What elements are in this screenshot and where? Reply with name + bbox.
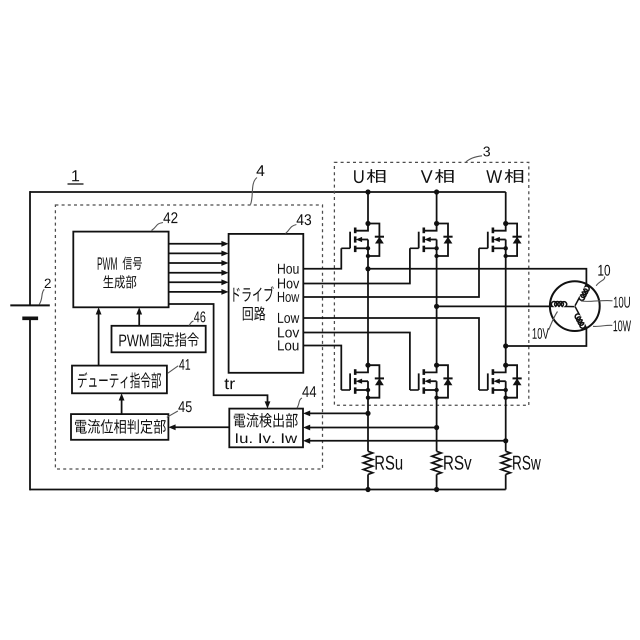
wire: PWM signal arrow 3 from 42 to 43 — [169, 262, 223, 264]
motor winding 10W — [571, 306, 587, 330]
pin label Hov — [278, 278, 299, 288]
label 42 — [163, 212, 177, 223]
label 3 — [483, 147, 490, 157]
wire: U top bus to high-side drain — [367, 192, 369, 224]
label 4 — [257, 165, 265, 176]
label RSw — [513, 456, 541, 470]
leader for label 46 — [189, 321, 194, 326]
leader for label 10V — [549, 312, 558, 331]
wire: V high-side source to phase node — [436, 256, 438, 306]
leader for label 44 — [297, 398, 302, 408]
wire: shunt to bottom bus — [367, 474, 369, 489]
leader for label 10W — [593, 325, 612, 326]
pin label Hou — [278, 264, 299, 274]
wire: W low-side source to sense node — [505, 398, 507, 441]
wire: W top bus to high-side drain — [505, 192, 507, 224]
leader for label 10 — [596, 277, 605, 286]
leader for label 3 — [466, 156, 482, 162]
dashed boundary box 4 (controller) — [55, 205, 322, 469]
wire: arrow 44 to 45 — [175, 426, 230, 428]
wire: Hov gate drive routing — [303, 248, 410, 283]
text 電流位相判定部 — [75, 419, 166, 434]
text 電流検出部 — [234, 413, 298, 428]
block 42: PWM signal generation box — [73, 232, 168, 308]
leader for label 41 — [168, 366, 178, 373]
pin label Lou — [278, 340, 298, 350]
text Iu, Iv, Iw — [236, 433, 297, 443]
wire: ground return rail (bottom bus) — [30, 489, 506, 491]
wire: arrow 46 to 42 — [138, 314, 140, 326]
wire: U sense node to shunt resistor — [367, 413, 369, 451]
text PWM信号 line1 — [98, 257, 117, 269]
underline of label 1 — [68, 183, 84, 185]
wire: W sense node to shunt resistor — [505, 441, 507, 452]
motor winding 10U — [575, 284, 591, 308]
wire: left supply branch lower — [29, 318, 31, 490]
transistor Q4 (U-phase low side) — [341, 363, 384, 400]
wire: PWM signal arrow 5 from 42 to 43 — [169, 281, 223, 283]
transistor Q2 (V-phase high side) — [410, 221, 453, 258]
transistor Q5 (V-phase low side) — [410, 363, 453, 400]
wire: V top bus to high-side drain — [436, 192, 438, 224]
label 45 — [178, 401, 191, 412]
text デューティ指令部 — [78, 372, 161, 388]
wire: shunt to bottom bus — [436, 474, 438, 489]
resistor RSw — [501, 451, 510, 474]
wire: U low-side source to sense node — [367, 398, 369, 414]
label 2 — [45, 279, 51, 288]
wire: Hou gate drive routing — [303, 248, 341, 268]
label V相 — [421, 170, 433, 183]
node U-phase top bus connection — [365, 189, 370, 194]
pin label Low — [278, 313, 299, 323]
wire: How gate drive routing — [303, 248, 479, 297]
label U相 — [354, 170, 363, 183]
leader for label 43 — [286, 225, 297, 234]
motor 10 (three-phase) — [550, 281, 600, 331]
label 46 — [194, 311, 205, 322]
wire: U phase to motor terminal — [368, 269, 586, 284]
wire: W phase to motor terminal — [506, 328, 587, 346]
label 43 — [297, 214, 312, 225]
label RSv — [444, 456, 471, 470]
node V-phase top bus connection — [434, 189, 439, 194]
label 44 — [302, 386, 316, 397]
resistor RSu — [363, 451, 372, 474]
leader for label 2 — [39, 289, 44, 304]
wire: V sense node to shunt resistor — [436, 428, 438, 452]
wire: tr signal from 42 to 44 — [169, 304, 268, 402]
node W current sense — [503, 438, 508, 443]
wire: V low-side source to sense node — [436, 398, 438, 428]
label 1 — [72, 170, 79, 181]
pin label Lov — [278, 327, 299, 337]
wire: arrow 41 to 42 — [98, 314, 100, 366]
wire: V phase to motor terminal — [437, 305, 550, 307]
transistor Q1 (U-phase high side) — [341, 221, 384, 258]
resistor RSv — [432, 451, 441, 474]
label 10 — [598, 265, 610, 276]
label 10W — [614, 320, 632, 331]
wire: PWM signal arrow 4 from 42 to 43 — [169, 272, 223, 274]
text 回路 — [243, 306, 266, 320]
wire: Low gate drive routing — [303, 318, 479, 390]
battery 2 — [10, 305, 50, 318]
label W相 — [486, 170, 502, 183]
wire: PWM signal arrow 1 from 42 to 43 — [169, 243, 223, 245]
wire: Lov gate drive routing — [303, 333, 410, 391]
node U bottom bus junction — [365, 487, 370, 492]
leader for label 4 — [251, 178, 258, 205]
wire: Iv sense line to 44 — [309, 427, 436, 429]
node W phase output — [503, 343, 508, 348]
leader for label 45 — [167, 411, 178, 417]
wire: U phase node to low-side drain — [367, 269, 369, 365]
wire: W high-side source to phase node — [505, 256, 507, 346]
text PWM固定指令 — [119, 335, 148, 347]
transistor Q6 (W-phase low side) — [479, 363, 522, 400]
wire: left supply branch upper — [29, 191, 31, 305]
wire: Iw sense line to 44 — [309, 440, 505, 442]
label RSu — [376, 456, 403, 470]
leader for label 10U — [581, 299, 613, 302]
block 44: current detection box — [229, 409, 303, 448]
text ドライブ — [233, 286, 273, 301]
dashed boundary box 3 (inverter) — [334, 162, 528, 405]
motor winding 10V — [550, 301, 574, 306]
wire: W phase node to low-side drain — [505, 346, 507, 365]
wire: shunt to bottom bus — [505, 474, 507, 489]
label tr — [225, 379, 235, 389]
node U phase output — [365, 266, 370, 271]
wire: positive supply rail (top bus) — [30, 191, 506, 193]
block 43: drive circuit box — [229, 234, 304, 373]
block 46: PWM fixed command box — [112, 326, 206, 353]
wire: PWM signal arrow 6 from 42 to 43 — [169, 291, 223, 293]
label 41 — [179, 359, 190, 370]
text 生成部 line2 — [103, 275, 136, 288]
block 41: duty command box — [72, 366, 167, 394]
wire: PWM signal arrow 2 from 42 to 43 — [169, 252, 223, 254]
node V bottom bus junction — [434, 487, 439, 492]
node U current sense — [365, 411, 370, 416]
wire: Lou gate drive routing — [303, 346, 341, 391]
label 10V — [533, 328, 549, 339]
node V phase output — [434, 304, 439, 309]
wire: arrow 45 to 41 — [121, 400, 123, 415]
leader for label 42 — [152, 223, 164, 231]
block 45: current phase determination box — [71, 414, 168, 440]
wire: Iu sense line to 44 — [309, 412, 368, 414]
label 10U — [614, 297, 630, 308]
node V current sense — [434, 425, 439, 430]
wire: V phase node to low-side drain — [436, 306, 438, 365]
pin label How — [278, 292, 299, 302]
wire: U high-side source to phase node — [367, 256, 369, 269]
transistor Q3 (W-phase high side) — [479, 221, 522, 258]
